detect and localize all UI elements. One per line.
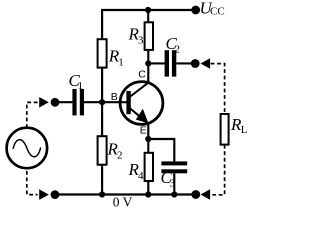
transistor base bar — [126, 91, 130, 114]
resistor R1 — [98, 39, 107, 67]
resistor RL — [221, 114, 229, 145]
input arrow top — [39, 97, 49, 108]
wire R3 bottom to collector node — [147, 51, 149, 83]
resistor R4 — [145, 153, 153, 181]
junction node at R3 top — [145, 7, 151, 13]
junction node C3 ground — [171, 191, 177, 197]
junction node R4 ground — [145, 191, 151, 197]
svg-text:3: 3 — [138, 35, 144, 47]
resistor R2 — [98, 136, 107, 165]
wire top supply rail — [102, 10, 196, 39]
svg-text:1: 1 — [118, 57, 124, 69]
output arrow top — [201, 58, 211, 69]
svg-text:L: L — [241, 124, 248, 136]
input arrow bottom — [39, 189, 49, 200]
wire C1 to base node B — [84, 101, 127, 103]
transistor emitter arrow — [137, 110, 148, 123]
wire C3 bottom to ground rail — [173, 173, 175, 194]
capacitor C2 plates — [165, 50, 177, 76]
dashed wire RL to output bottom — [211, 145, 225, 195]
wire collector node to C2 — [148, 62, 164, 64]
capacitor C3 plates — [161, 161, 187, 173]
junction node B base — [99, 99, 105, 105]
junction node E emitter — [145, 136, 151, 142]
wire emitter to node E — [147, 123, 149, 139]
resistor R3 — [145, 22, 153, 50]
wire R2 bottom to ground rail — [101, 165, 103, 195]
svg-text:4: 4 — [138, 170, 144, 182]
wire bottom 0V rail — [55, 193, 196, 195]
terminal output bottom — [191, 190, 200, 199]
dashed wire output top to RL — [211, 64, 225, 114]
dashed wire input arrow to source top — [27, 102, 38, 127]
svg-text:2: 2 — [175, 44, 181, 56]
transistor collector line — [130, 82, 149, 97]
source G1 sine wave — [13, 140, 41, 157]
source G1 circle — [7, 128, 48, 169]
wire R1 to R2 through base node — [101, 68, 103, 136]
capacitor C1 plates — [72, 89, 84, 115]
transistor emitter line — [130, 108, 149, 124]
terminal input bottom — [51, 190, 60, 199]
svg-text:C: C — [138, 68, 146, 80]
junction node R2 ground — [99, 191, 105, 197]
junction node collector/C2 — [145, 60, 151, 66]
svg-text:2: 2 — [117, 150, 123, 162]
output arrow bottom — [201, 189, 211, 200]
wire R3 top to rail — [147, 10, 149, 22]
svg-text:E: E — [140, 124, 147, 136]
terminal output top — [191, 59, 200, 68]
wire C2 to output terminal — [176, 62, 195, 64]
dashed wire source bottom to input arrow — [27, 171, 38, 195]
wire node E branch to C3 — [148, 139, 174, 161]
terminal input top — [51, 98, 60, 107]
wire R4 bottom to ground rail — [147, 181, 149, 195]
wire node E to R4 — [147, 139, 149, 153]
wire input terminal to C1 — [55, 101, 72, 103]
svg-text:3: 3 — [170, 178, 176, 190]
svg-text:0 V: 0 V — [113, 195, 133, 210]
transistor Q1 circle — [120, 82, 163, 125]
terminal UCC — [191, 6, 200, 15]
svg-text:CC: CC — [210, 6, 225, 18]
svg-text:1: 1 — [78, 80, 84, 92]
svg-text:B: B — [111, 91, 118, 103]
